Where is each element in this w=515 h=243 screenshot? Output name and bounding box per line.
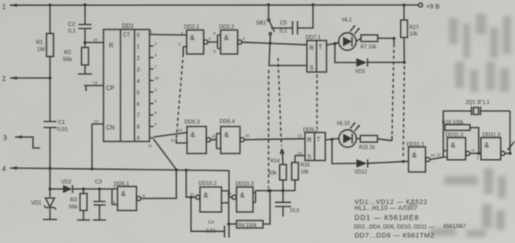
wire DD10.2 output riser to term4 net [186,170,196,197]
wire dashed channel bus 1 [393,38,395,44]
svg-text:S: S [310,66,314,72]
node 2 (sensor terminal 2) [2,76,17,83]
flip-flop DD9.2 [298,128,326,162]
resistor R18 feedback [442,120,479,153]
wire VD2 row [50,188,112,190]
wire DD6.1 output riser [141,170,177,199]
resistor R7 [356,35,394,51]
svg-text:13: 13 [178,129,182,133]
svg-text:6: 6 [155,111,157,115]
svg-text:56k: 56k [63,57,72,63]
svg-text:3: 3 [209,37,211,41]
svg-text:VD3: VD3 [355,69,365,75]
svg-text:7: 7 [155,65,157,69]
svg-text:4: 4 [243,37,245,41]
svg-text:14: 14 [94,120,98,124]
wire DD6.3 to DD6.4 [211,134,221,149]
svg-text:DD7...DD9 — К561ТМ2: DD7...DD9 — К561ТМ2 [355,233,435,240]
svg-text:3: 3 [150,30,152,34]
svg-text:S: S [307,155,311,161]
DD1 output pin stubs [148,30,159,148]
node +9 V supply terminal [419,3,440,11]
junction R7 output / channel bus [393,37,396,40]
svg-text:DD1: DD1 [122,24,135,30]
wire DD11.2 out to DD11.3 [470,152,481,154]
svg-text:6: 6 [137,102,140,108]
svg-text:&: & [190,35,195,42]
svg-text:0,01: 0,01 [57,127,68,133]
resistor R2 [63,48,92,75]
junction bus2 / DD11.1 input [402,160,405,163]
wire SB1 node down to DD7.1 S [269,43,307,65]
diode VD12 [355,159,368,175]
svg-text:1: 1 [113,185,115,189]
svg-text:T: T [317,138,321,144]
svg-text:R1: R1 [36,40,43,46]
svg-text:0,1: 0,1 [280,29,288,35]
svg-text:R: R [307,138,312,144]
svg-text:R4 150k: R4 150k [238,223,257,229]
wire DD10.3 inputs tie to RC net [253,191,256,203]
resistor R16 [292,156,310,191]
resistor R3 [69,189,90,220]
junction rail/SB1 [267,3,270,6]
logic gate DD6.1 [112,182,146,211]
svg-text:13: 13 [298,134,302,138]
svg-text:&: & [121,191,126,198]
crystal ZQ1 [443,100,510,153]
svg-text:HL10: HL10 [337,121,350,127]
svg-text:DD6.4: DD6.4 [220,119,235,125]
diode VD3 [355,58,368,75]
capacitor C6 10.0 electrolytic [275,191,299,217]
junction rail/R1 [49,4,52,7]
legend text [354,199,466,240]
svg-text:12: 12 [437,153,441,157]
logic gate DD2.1 [179,25,211,55]
svg-text:0,1: 0,1 [68,29,76,35]
svg-text:4: 4 [2,166,6,173]
node 4 (sensor terminal 4) [2,166,17,173]
svg-text:0,01: 0,01 [206,229,216,235]
wire DD1 pin11 diagonal [154,139,177,170]
resistor R4 [229,191,270,229]
svg-text:VD1...VD12 — КД522: VD1...VD12 — КД522 [355,199,428,206]
svg-text:5: 5 [214,32,216,36]
counter IC DD1 K561IE8 [104,24,150,142]
wire to DD1 CN input pin 14 [92,124,104,169]
wire dashed channel repeat (SB line) [268,70,270,188]
svg-text:1: 1 [155,88,157,92]
svg-text:10: 10 [245,134,249,138]
junction R17 / VD3 row [403,61,406,64]
svg-text:&: & [224,132,229,139]
svg-text:56k: 56k [69,205,78,211]
switch SB1 [256,5,275,44]
svg-text:SB1: SB1 [256,21,266,27]
svg-text:3: 3 [3,135,7,142]
wire DD10.2 inputs tie [222,191,229,226]
svg-text:&: & [224,35,229,42]
svg-text:R14: R14 [271,159,280,165]
svg-text:R15 1k: R15 1k [359,145,375,151]
svg-text:4: 4 [137,79,140,85]
svg-text:15: 15 [93,38,97,42]
wire common RC net [256,190,296,192]
junction R3 [82,188,85,191]
svg-text:DD10.2: DD10.2 [199,181,217,187]
svg-text:43k: 43k [269,171,278,177]
svg-text:+9 В: +9 В [426,4,440,11]
wire DD11.3 output [505,152,510,154]
svg-text:R18 100k: R18 100k [442,120,464,126]
logic gate DD11.2 [446,133,475,160]
svg-text:11: 11 [212,135,216,139]
junction rail/C5 [312,3,315,6]
svg-text:2: 2 [113,201,115,205]
wire riser DD2.1 input (dashed channel line) [183,47,186,54]
logic gate DD6.3 [171,120,216,154]
svg-text:DD2...DD4, DD6, DD10, DD11 —: DD2...DD4, DD6, DD10, DD11 — [354,225,434,231]
svg-text:CN: CN [106,126,115,132]
svg-text:1: 1 [2,4,6,11]
capacitor C3 [93,180,106,221]
node 3 (sensor terminal 3) [3,135,40,148]
svg-text:11: 11 [148,144,152,148]
svg-text:ZQ1 ЗГ1-1: ZQ1 ЗГ1-1 [466,100,490,106]
wire VD12 row to DD11.1 [332,139,409,163]
svg-text:&: & [191,132,196,139]
svg-text:9: 9 [155,123,157,127]
wire DD2.2 output to DD7.1 R [242,42,307,45]
svg-text:R: R [109,44,114,50]
wire DD11.1 out to DD11.2 [430,150,447,159]
svg-text:C2: C2 [68,22,75,28]
svg-text:DD6.1: DD6.1 [114,182,129,188]
svg-text:7: 7 [137,113,140,119]
svg-text:DD6.3: DD6.3 [185,120,200,126]
capacitor C4 [206,220,229,238]
svg-text:HL1: HL1 [342,18,352,24]
diode VD1 [31,198,57,220]
svg-text:C5: C5 [280,21,287,27]
svg-text:11: 11 [471,149,475,153]
svg-text:R16: R16 [301,163,310,169]
logic gate DD10.3 [227,182,254,213]
svg-text:6: 6 [214,50,216,54]
svg-text:10: 10 [431,154,435,158]
svg-text:&: & [412,153,417,160]
junction term4/CN riser [91,167,94,170]
capacitor C2 [68,5,92,48]
junction R1/terminal2 [49,77,52,80]
junction C3 [98,188,101,191]
LED HL10 [337,121,360,147]
svg-text:HL1...HL10 — АЛ307: HL1...HL10 — АЛ307 [355,206,419,212]
capacitor C1 [44,120,68,133]
resistor R14 with up arrow [269,149,287,191]
svg-text:1: 1 [137,45,140,51]
junction C2-R2 / R input [84,41,87,44]
junction term4/left column [49,167,52,170]
svg-text:2: 2 [2,76,6,83]
wire +9V top rail [10,4,419,6]
svg-text:R17: R17 [410,25,419,31]
capacitor C5 [271,5,313,35]
wire dashed channel bus 2 [403,66,404,158]
svg-text:3: 3 [137,67,140,73]
svg-text:VD12: VD12 [355,170,368,176]
svg-text:C1: C1 [58,120,65,126]
LED HL1 [339,18,360,51]
node 1 (sensor terminal 1) [2,4,17,11]
logic gate DD11.3 [477,133,505,161]
svg-text:2: 2 [477,156,479,160]
svg-text:&: & [204,193,209,200]
logic gate DD10.2 [190,181,222,212]
svg-text:10: 10 [155,77,159,81]
svg-text:CP: CP [106,86,114,92]
svg-text:R7 10k: R7 10k [361,45,377,51]
wire DD7.1 output to HL1 [327,43,339,45]
diode VD2 [61,180,73,194]
wire terminal 2 to R1 [10,77,50,79]
svg-text:5: 5 [155,100,157,104]
logic gate DD6.4 [220,119,250,154]
svg-text:0: 0 [137,33,140,39]
svg-text:12: 12 [171,139,175,143]
svg-text:R2: R2 [64,50,71,56]
svg-text:5: 5 [137,90,140,96]
wire DD1 out9 to DD6.3 [154,133,188,138]
svg-text:VD2: VD2 [61,180,72,186]
logic gate DD11.1 [407,142,435,172]
resistor R17 [401,5,419,62]
svg-text:C3: C3 [95,180,102,186]
svg-text:2: 2 [155,42,157,46]
junction rail/C2 [84,3,87,6]
wire DD10.3 output riser to term4 net end [229,171,232,198]
wire DD9.2 S input [295,155,305,157]
wire to DD1 CP input pin 13 [84,86,104,92]
wire DD2.1 to DD2.2 [208,35,221,49]
svg-text:1M: 1M [37,47,45,53]
wire HL10 input [325,139,339,140]
svg-text:&: & [240,193,245,200]
svg-text:C4: C4 [208,220,214,225]
svg-text:1: 1 [181,31,183,35]
junction SB1 line [269,42,272,45]
svg-text:&: & [484,143,489,150]
svg-text:CT: CT [123,33,131,39]
svg-text:10,0: 10,0 [290,208,300,214]
wire left column vertical [49,5,51,219]
resistor R15 [356,136,392,152]
wire VD3 row [335,44,404,63]
svg-text:8: 8 [137,125,140,131]
svg-text:9: 9 [137,136,140,142]
svg-text:R3: R3 [70,198,77,204]
wire to DD1 R input pin 15 [85,42,104,44]
svg-text:13: 13 [93,81,97,85]
junction rail/R17 [403,4,406,7]
junction VD2 branch [49,188,52,191]
svg-text:2: 2 [137,56,140,62]
wire DD1 out0 to DD2.1 [154,34,187,37]
wire dashed channel repeat (C-line) [278,58,281,146]
svg-text:T: T [319,45,323,51]
resistor R1 [36,34,54,57]
svg-text:4: 4 [155,54,157,58]
wire DD10.2 output to C4 [190,196,193,199]
svg-text:2: 2 [179,43,181,47]
svg-text:R: R [310,46,315,52]
wire dashed flip-flop column [316,75,318,129]
wire DD6.4 output to DD9.2 R [244,139,305,140]
svg-text:10k: 10k [301,170,310,176]
svg-text:&: & [451,143,456,150]
flip-flop DD7.1 [306,35,327,72]
svg-text:10k: 10k [410,32,419,38]
logic gate DD2.2 [214,25,245,55]
wire terminal 4 horizontal net [10,168,229,171]
svg-text:DD1 — К561ИЕ8: DD1 — К561ИЕ8 [355,215,420,222]
svg-text:VD1: VD1 [31,201,42,207]
svg-text:К561ЛА7: К561ЛА7 [444,224,466,230]
